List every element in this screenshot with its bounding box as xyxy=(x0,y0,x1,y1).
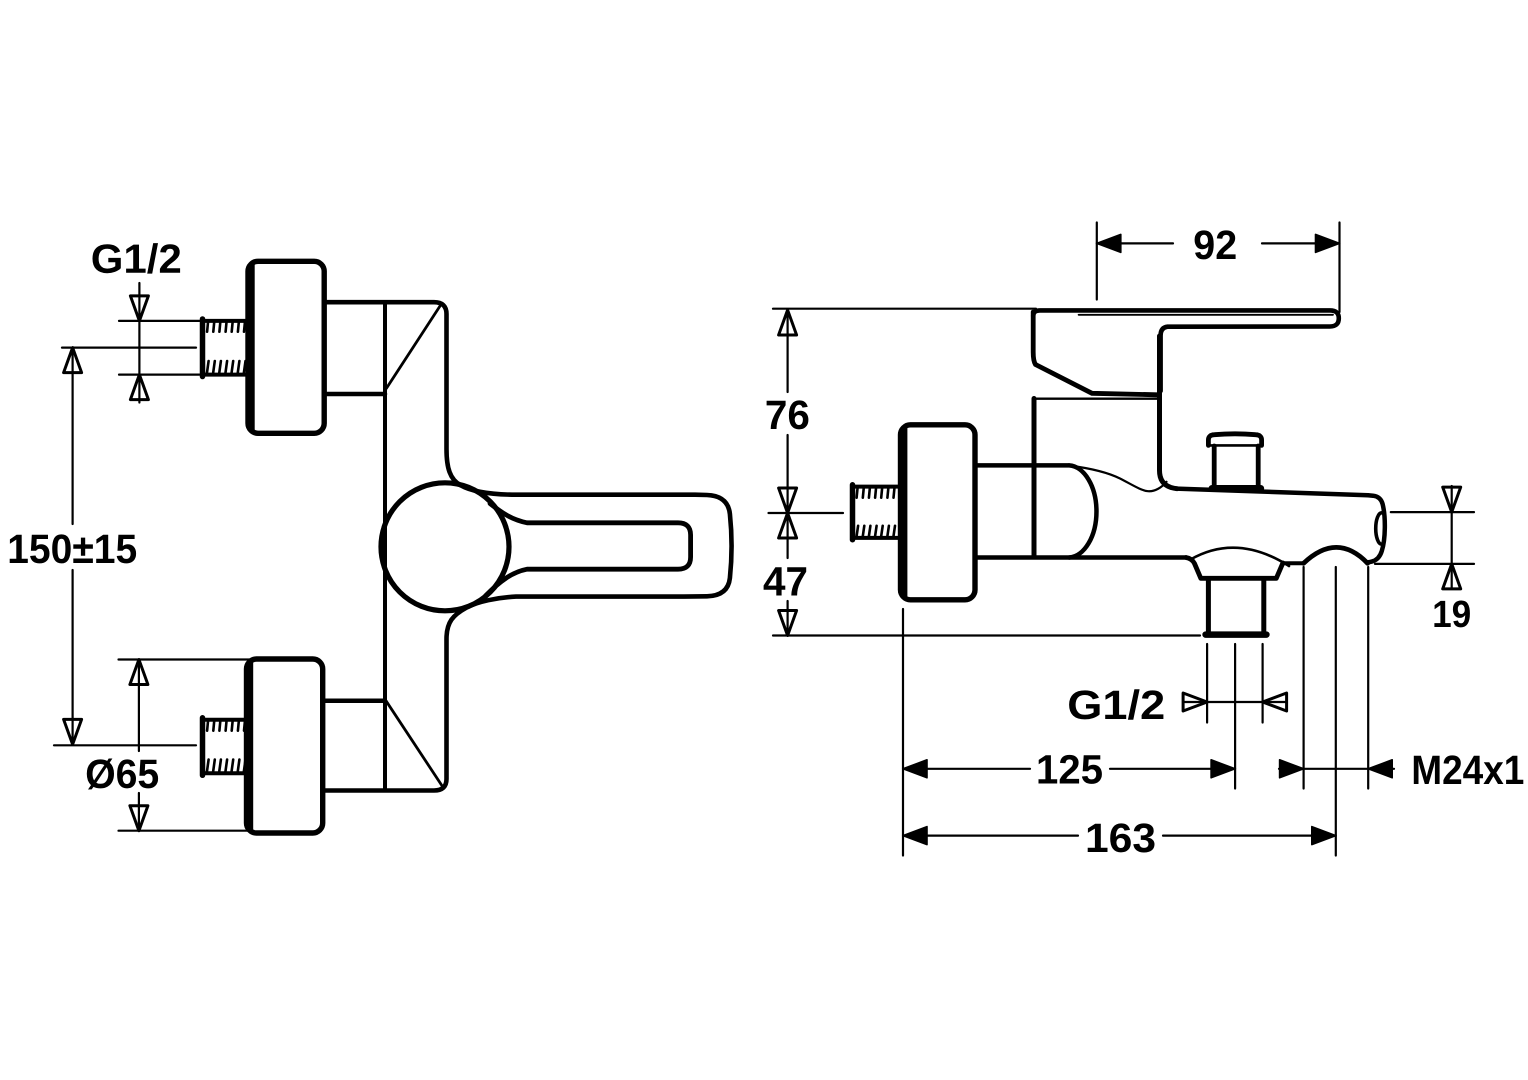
dimension G1/2 (outlet): extension lines xyxy=(1207,644,1263,723)
left view: handle hub circle (cartridge cap) xyxy=(381,483,509,611)
dimension 76/47: middle extension line xyxy=(769,512,844,514)
dimension 92: dimension line xyxy=(1097,242,1340,244)
label 76 xyxy=(767,400,809,429)
right view: boss shoulder curve xyxy=(1191,548,1290,566)
right view: bath outlet cylinder sides xyxy=(1208,579,1263,634)
left view: bottom inlet centre line xyxy=(54,744,196,746)
left view: top connecting cylinder bottom edge xyxy=(324,392,385,397)
label 150±15 xyxy=(10,534,136,563)
right view: bath outlet end cap xyxy=(1206,631,1267,638)
label 92 xyxy=(1195,230,1236,259)
right view: shower outlet cylinder sides xyxy=(1214,446,1258,488)
dimension 19: dimension line xyxy=(1451,486,1453,589)
dimension 92: extension lines xyxy=(1097,223,1340,313)
label Ø65 xyxy=(87,759,158,790)
left view: body left edge (wall side) xyxy=(383,302,387,790)
label 163 xyxy=(1088,823,1155,852)
right view: connecting cylinder top edge xyxy=(975,463,1069,468)
left view: top inlet centre line xyxy=(62,347,196,349)
dimension Ø65: extension lines xyxy=(119,660,253,831)
right view: lever top second line xyxy=(1079,314,1333,316)
dimension 19: arrowheads xyxy=(1443,487,1461,512)
left view: handle inner slot outline xyxy=(486,504,691,596)
right view: aerator bump M24x1 xyxy=(1304,547,1368,563)
right view: shower outlet top rim xyxy=(1208,434,1261,446)
right view: bath outlet centre line xyxy=(1234,644,1236,789)
right view: bottom contour wall-to-spout xyxy=(975,555,1186,560)
dimension 19: extension lines xyxy=(1375,512,1474,564)
right view: riser column left edge xyxy=(1032,399,1037,557)
dimension 150±15: arrowheads xyxy=(64,348,82,373)
right view: spout end opening ellipse xyxy=(1376,513,1382,544)
dimension M24x1: arrowheads xyxy=(1280,760,1304,778)
right view: bath outlet boss xyxy=(1186,558,1283,579)
dimension 76: dimension line xyxy=(786,310,788,636)
right view: wall face reference line xyxy=(902,609,904,856)
right view: bottom segment boss to aerator xyxy=(1283,561,1304,565)
dimension 125: arrowheads xyxy=(903,760,927,778)
right view: aerator edge extension lines xyxy=(1304,567,1369,789)
dimension 163: dimension line xyxy=(903,834,1336,836)
dimension G1/2 (outlet): arrowheads xyxy=(1183,693,1207,711)
label 19 xyxy=(1434,601,1470,628)
label M24x1 xyxy=(1414,755,1524,784)
left view: bottom threaded nipple G1/2 xyxy=(203,718,247,776)
dimension 47: arrowheads xyxy=(779,513,797,538)
left view: top threaded nipple G1/2 xyxy=(203,319,249,377)
right view: handle dome left edge and chamfer xyxy=(1033,312,1158,395)
right view: shower outlet base xyxy=(1212,485,1261,492)
dimension 163: arrowheads xyxy=(903,827,927,845)
label 47 xyxy=(764,567,807,595)
dimension 150±15: dimension line xyxy=(71,348,73,745)
label 125 xyxy=(1039,755,1102,784)
dimension G1/2 (outlet): dimension line xyxy=(1183,701,1287,703)
right view: threaded nipple G1/2 xyxy=(853,485,901,540)
left view: top chamfer diagonal xyxy=(386,305,441,389)
dimension G1/2 (top left): dimension line xyxy=(138,283,140,403)
right view: lever handle top outline xyxy=(1033,310,1339,391)
dimension 125: dimension line xyxy=(903,768,1235,770)
left view: top wall escutcheon xyxy=(248,261,324,433)
dimension M24x1: dimension line xyxy=(1279,768,1394,770)
right view: spout left end dome arc xyxy=(1069,465,1096,557)
right view: aerator centre line xyxy=(1335,567,1337,856)
right view: wall escutcheon xyxy=(901,425,976,600)
dimension Ø65: dimension line xyxy=(138,660,140,831)
right view: spout right end cap xyxy=(1368,495,1385,562)
right view: spout top edge xyxy=(1176,489,1368,496)
left view: bottom wall escutcheon xyxy=(247,659,323,833)
dimension G1/2 (top left): extension lines xyxy=(119,321,200,375)
dimension 76: arrowheads xyxy=(779,310,797,335)
left view: faucet body outline with handle arm xyxy=(324,302,732,790)
left view: bottom connecting cylinder top edge xyxy=(324,699,386,704)
dimension G1/2 (top left): arrowheads xyxy=(130,296,148,321)
left view: bottom chamfer diagonal xyxy=(386,701,443,787)
dimension Ø65: arrowheads xyxy=(130,660,148,685)
dimension 47: bottom extension line xyxy=(773,634,1200,636)
right view: riser column right edge with curve into spout xyxy=(1160,336,1178,489)
dimension 76/47: top extension line xyxy=(773,308,1036,310)
right view: fillet curve column/spout xyxy=(1070,466,1167,492)
label G1/2 (top left) xyxy=(93,243,181,274)
dimension 92: arrowheads xyxy=(1097,234,1121,252)
label G1/2 (outlet) xyxy=(1069,689,1163,720)
right view: cartridge collar top line xyxy=(1034,398,1158,400)
